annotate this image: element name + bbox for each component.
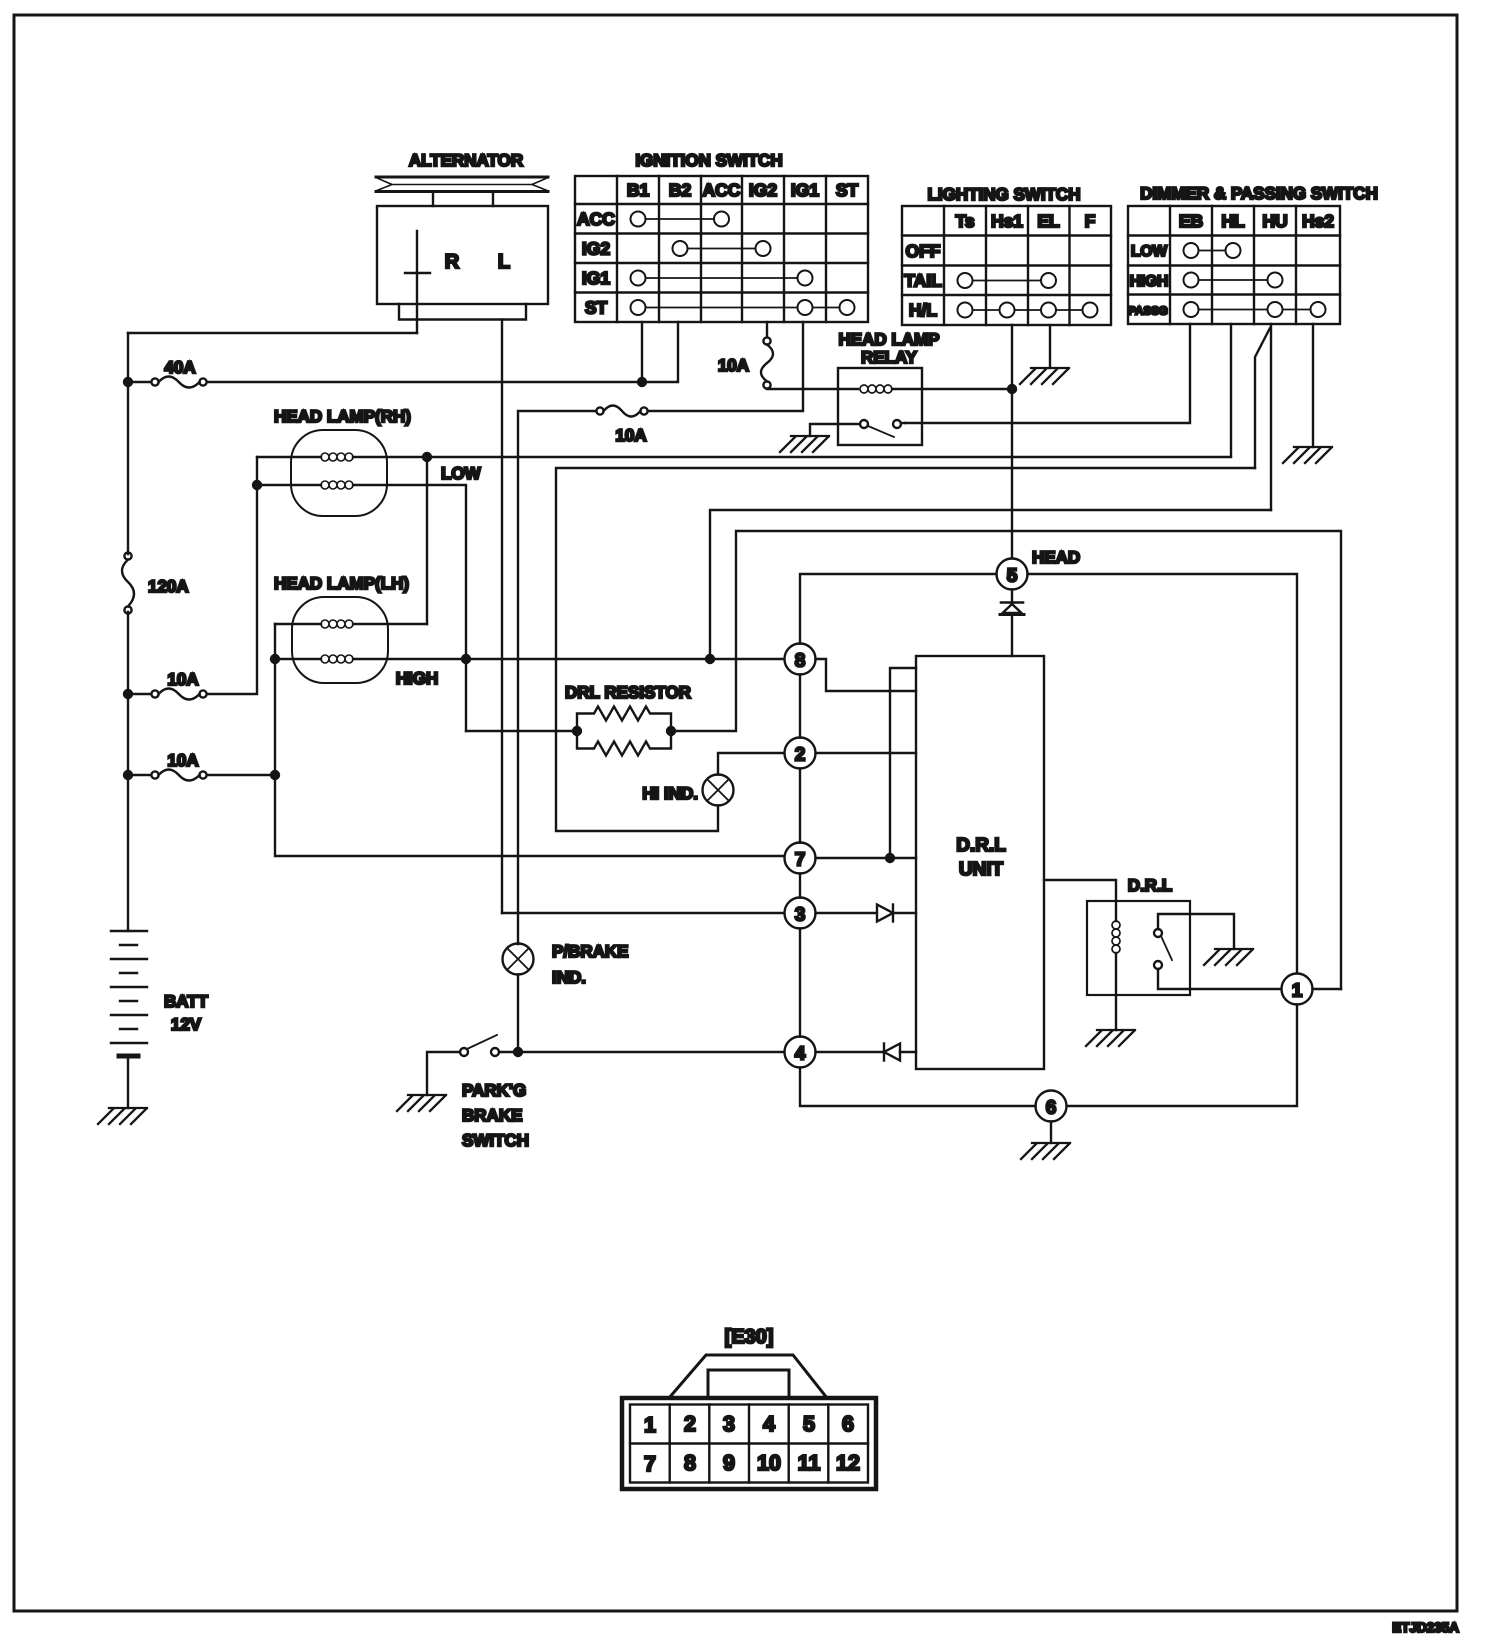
- node: LH lamp left coils junction: [271, 655, 279, 663]
- fuse 10A (head lamp LH): [151, 770, 206, 781]
- svg-text:1: 1: [1292, 981, 1303, 1002]
- wire: HIGH drop to resistor left: [466, 730, 577, 732]
- svg-text:P/BRAKE: P/BRAKE: [552, 942, 629, 961]
- svg-text:120A: 120A: [148, 577, 189, 596]
- svg-text:PARK'G: PARK'G: [462, 1081, 526, 1100]
- alternator shaft stubs: [433, 193, 493, 206]
- svg-text:9: 9: [723, 1451, 735, 1475]
- svg-text:12: 12: [836, 1451, 860, 1475]
- svg-text:[E30]: [E30]: [725, 1326, 774, 1348]
- wire: terminal 5 left to terminal 8 top: [800, 574, 997, 644]
- svg-text:IG2: IG2: [749, 180, 777, 200]
- fuse 10A (ignition IG2, vertical): [761, 337, 773, 388]
- wire: resistor right to outer loop riser: [671, 531, 1341, 989]
- wire: 10A fuse LH to lamp vertical: [128, 774, 275, 776]
- wire: 40A feed to ignition switch B1/B2: [128, 322, 678, 382]
- node: bus to 40A fuse: [124, 378, 132, 386]
- svg-text:DIMMER & PASSING SWITCH: DIMMER & PASSING SWITCH: [1140, 184, 1378, 203]
- alternator pulley: [376, 177, 548, 192]
- connector E30 hood: [669, 1355, 827, 1398]
- ground: DRL relay switch: [1204, 949, 1253, 965]
- wire: fuse to head lamp relay coil: [767, 387, 858, 390]
- node: resistor left: [573, 727, 581, 735]
- svg-text:LOW: LOW: [1131, 243, 1168, 260]
- head lamp RH bulb: [291, 430, 387, 516]
- fuse 10A (headlamp high feed): [596, 406, 647, 417]
- svg-text:HI IND.: HI IND.: [642, 784, 698, 803]
- wire: terminal 6 to ground: [1050, 1122, 1052, 1144]
- wire: RH high coil to HIGH line: [257, 485, 466, 731]
- svg-text:PASSG: PASSG: [1128, 306, 1167, 318]
- alternator pedestal: [399, 304, 526, 320]
- wire: EL pin to ground: [1049, 325, 1051, 368]
- diode D2 (DRL unit to terminal 4): [884, 1044, 916, 1061]
- wire: alternator R to bus: [416, 320, 418, 334]
- fuse 120A (main, vertical in bus): [122, 552, 134, 613]
- svg-text:B1: B1: [627, 180, 650, 200]
- node: LOW junction: [423, 453, 431, 461]
- terminal 7: [785, 843, 816, 874]
- svg-text:D.R.L: D.R.L: [1128, 876, 1172, 895]
- wire: relay switch output to EB (drawn with EB stub): [901, 422, 905, 424]
- wire: 10A fuse to head lamp RH left side: [128, 457, 257, 694]
- node: HIGH to outer loop: [706, 655, 714, 663]
- wire: terminal 5 right to terminal 1 riser: [1028, 574, 1298, 974]
- wire: alternator L down to terminal 3 line: [501, 320, 503, 914]
- svg-text:ST: ST: [585, 298, 608, 318]
- svg-text:4: 4: [763, 1412, 775, 1436]
- svg-text:IG1: IG1: [791, 180, 819, 200]
- ignition contacts row ST: [631, 300, 855, 315]
- svg-text:UNIT: UNIT: [959, 859, 1004, 880]
- wire: relay coil to Hs1 node: [892, 388, 1012, 390]
- wire: HI IND bottom loop to dimmer HU branch: [556, 468, 1255, 831]
- node: bus to 10A fuse (RH): [124, 690, 132, 698]
- wire: top feed from battery bus to alternator R: [128, 332, 417, 334]
- svg-text:IND.: IND.: [552, 968, 586, 987]
- fuse 10A (head lamp RH): [151, 689, 206, 700]
- dimmer contacts row PASSG: [1184, 302, 1326, 317]
- wire: terminal chain 8-2-7-3-4: [799, 675, 801, 1037]
- node: LH lamp feed junction: [271, 771, 279, 779]
- svg-text:BATT: BATT: [164, 992, 209, 1011]
- svg-text:F: F: [1085, 211, 1096, 231]
- lamp HI IND.: [703, 775, 734, 806]
- wire: DRL unit stub to terminal 7 node: [890, 668, 916, 858]
- connector E30 latch tab: [708, 1370, 789, 1398]
- svg-text:8: 8: [795, 651, 806, 672]
- terminal 2: [785, 738, 816, 769]
- wire: IG2 pin stub: [766, 322, 768, 337]
- svg-text:11: 11: [798, 1451, 821, 1475]
- node: RH lamp left coils junction: [253, 481, 261, 489]
- svg-text:4: 4: [795, 1044, 806, 1065]
- wire: LH low coil to LOW vertical: [275, 623, 427, 625]
- relay switch contacts (D.R.L relay): [1154, 929, 1172, 969]
- terminal 8: [785, 644, 816, 675]
- wire: DRL relay switch top to ground: [1158, 914, 1234, 949]
- zener diode (terminal 5 to DRL unit): [1000, 590, 1024, 657]
- svg-text:HEAD LAMP(LH): HEAD LAMP(LH): [274, 574, 409, 593]
- svg-text:HIGH: HIGH: [396, 669, 439, 688]
- svg-text:B2: B2: [669, 180, 692, 200]
- svg-text:BRAKE: BRAKE: [462, 1106, 522, 1125]
- svg-text:HEAD: HEAD: [1032, 548, 1080, 567]
- node: relay coil / Hs1 / HEAD junction: [1008, 385, 1016, 393]
- svg-text:RELAY: RELAY: [861, 348, 918, 367]
- ground: dimmer switch Hs2: [1283, 447, 1332, 463]
- wire: HU loop down to HIGH node: [710, 510, 1271, 659]
- svg-text:6: 6: [842, 1412, 854, 1436]
- wire: terminal 1 down to terminal 6: [1067, 1005, 1298, 1107]
- connector E30 pin numbers: [644, 1412, 860, 1476]
- wire: park brake switch to ground: [427, 1052, 460, 1095]
- relay coil (D.R.L relay, vertical): [1112, 921, 1120, 953]
- connector E30 body: [622, 1398, 876, 1489]
- battery BATT 12V: [111, 931, 147, 1108]
- wire: Hs1 pin down to relay coil node and HEAD terminal 5: [1011, 325, 1013, 558]
- svg-text:Hs1: Hs1: [991, 211, 1023, 231]
- ignition switch table: [575, 176, 868, 322]
- svg-text:SWITCH: SWITCH: [462, 1131, 529, 1150]
- wire: EB pin down to head lamp relay contact: [905, 324, 1190, 423]
- lighting contacts row TAIL: [958, 273, 1057, 288]
- wire: HU pin down to outer loop (HIGH select): [1270, 324, 1272, 510]
- wire: HL pin down to LOW line: [1230, 324, 1232, 456]
- svg-text:5: 5: [1007, 566, 1018, 587]
- svg-text:ST: ST: [836, 180, 859, 200]
- svg-text:IG2: IG2: [582, 239, 610, 259]
- ground: head lamp relay: [780, 436, 829, 452]
- wire: LOW junction down to LH low coil: [426, 457, 428, 624]
- svg-text:1: 1: [644, 1413, 656, 1437]
- connector E30 pin grid: [630, 1405, 868, 1483]
- wire: terminal 7 to DRL unit: [816, 857, 917, 859]
- svg-text:Ts: Ts: [955, 211, 974, 231]
- wire: park brake switch to terminal 4 line: [499, 1051, 518, 1053]
- terminal 6: [1036, 1091, 1067, 1122]
- svg-text:ETJD235A: ETJD235A: [1392, 1620, 1459, 1635]
- wire: terminal 3 line: [502, 912, 877, 914]
- svg-text:HEAD LAMP(RH): HEAD LAMP(RH): [274, 407, 411, 426]
- wire: battery bus (left vertical): [127, 333, 129, 931]
- fuse 40A: [151, 377, 206, 388]
- head lamp LH bulb: [292, 597, 388, 683]
- svg-text:10A: 10A: [167, 751, 198, 770]
- wire: IG1 pin to 10A fuse line: [648, 322, 803, 411]
- relay coil (head lamp relay): [860, 385, 892, 393]
- node: stub joins terminal 7 wire: [886, 854, 894, 862]
- terminal 5 HEAD: [997, 559, 1028, 590]
- svg-text:ALTERNATOR: ALTERNATOR: [409, 151, 523, 170]
- resistor DRL (two parallel elements): [577, 707, 671, 756]
- node: bus to 10A fuse (LH): [124, 771, 132, 779]
- svg-text:6: 6: [1046, 1098, 1057, 1119]
- svg-text:L: L: [498, 251, 510, 273]
- svg-text:3: 3: [723, 1412, 735, 1436]
- relay: D.R.L relay box: [1087, 901, 1190, 995]
- relay: head lamp relay box: [838, 368, 922, 445]
- terminal 1: [1282, 974, 1313, 1005]
- node: HIGH to resistor drop: [462, 655, 470, 663]
- wire: terminal 2 to DRL unit: [816, 752, 917, 754]
- svg-text:12V: 12V: [171, 1015, 202, 1034]
- node: resistor right: [667, 727, 675, 735]
- svg-text:8: 8: [684, 1451, 696, 1475]
- node: park brake switch junction: [514, 1048, 522, 1056]
- svg-text:10A: 10A: [167, 670, 198, 689]
- svg-text:2: 2: [795, 745, 806, 766]
- svg-text:R: R: [445, 251, 460, 273]
- svg-text:HL: HL: [1221, 211, 1245, 231]
- node: B1 junction: [638, 378, 646, 386]
- svg-text:DRL RESISTOR: DRL RESISTOR: [565, 683, 691, 702]
- svg-text:2: 2: [684, 1412, 696, 1436]
- svg-text:D.R.L: D.R.L: [956, 835, 1006, 856]
- svg-text:EL: EL: [1037, 211, 1060, 231]
- svg-text:40A: 40A: [164, 358, 195, 377]
- lighting contacts row H/L: [958, 303, 1098, 318]
- wire: terminal 4 line: [518, 1051, 884, 1053]
- relay switch contacts (head lamp relay): [860, 420, 901, 437]
- wire: DRL relay coil to ground: [1115, 953, 1117, 1030]
- dimmer and passing switch table: [1128, 206, 1340, 324]
- ignition contacts row IG2: [673, 241, 771, 256]
- svg-text:OFF: OFF: [906, 241, 941, 261]
- alternator: [376, 177, 548, 320]
- ground: park brake switch: [397, 1095, 446, 1111]
- wire: HU branch to HI IND line: [1255, 328, 1270, 468]
- ground: battery: [98, 1108, 147, 1124]
- wire: DRL relay switch bottom to terminal 1: [1158, 969, 1282, 989]
- terminal 4: [785, 1037, 816, 1068]
- wire: DRL unit to DRL relay coil: [1044, 880, 1116, 921]
- DRL unit box: [916, 656, 1044, 1069]
- svg-text:IGNITION SWITCH: IGNITION SWITCH: [635, 151, 782, 170]
- svg-text:ACC: ACC: [703, 180, 741, 200]
- ground: DRL relay coil: [1086, 1030, 1135, 1046]
- wire: terminal 6 to terminal 4 drop: [800, 1068, 1036, 1107]
- ignition contacts row ACC: [631, 212, 730, 227]
- wire: HI IND top to terminal 2: [718, 753, 784, 775]
- wire: relay switch to ground: [810, 424, 860, 436]
- switch: parking brake: [460, 1035, 499, 1056]
- wire: HIGH line (LH high coil to terminal 8): [275, 658, 784, 660]
- wire: LH lamp left vertical to fuse and terminal 7 line: [275, 624, 784, 856]
- wire: LOW line (RH low coil to dimmer HL): [257, 456, 1231, 458]
- svg-text:7: 7: [644, 1452, 656, 1476]
- svg-text:HIGH: HIGH: [1130, 273, 1169, 290]
- svg-text:3: 3: [795, 905, 806, 926]
- svg-text:HEAD LAMP: HEAD LAMP: [838, 330, 939, 349]
- wire: terminal 8 to DRL unit: [816, 659, 917, 691]
- svg-text:LIGHTING SWITCH: LIGHTING SWITCH: [928, 185, 1081, 204]
- lighting switch table: [902, 206, 1111, 325]
- alternator internal regulator symbol: [405, 231, 430, 320]
- svg-text:EB: EB: [1179, 211, 1203, 231]
- svg-text:10: 10: [757, 1451, 781, 1475]
- ground: lighting switch EL: [1020, 368, 1069, 384]
- dimmer contacts row LOW: [1184, 243, 1241, 258]
- wire: ignition B1 pin stub: [641, 322, 643, 382]
- svg-text:TAIL: TAIL: [904, 271, 942, 291]
- ignition contacts row IG1: [631, 271, 813, 286]
- wire: terminal 1 right to outer loop: [1313, 988, 1342, 990]
- svg-text:10A: 10A: [718, 356, 749, 375]
- svg-text:10A: 10A: [615, 426, 646, 445]
- svg-text:HU: HU: [1262, 211, 1287, 231]
- svg-text:7: 7: [795, 850, 806, 871]
- svg-text:H/L: H/L: [909, 300, 938, 320]
- svg-text:Hs2: Hs2: [1302, 211, 1334, 231]
- wire: 10A fuse down to P/BRAKE lamp line: [518, 411, 596, 944]
- svg-text:IG1: IG1: [582, 268, 610, 288]
- terminal 3: [785, 898, 816, 929]
- svg-text:ACC: ACC: [577, 209, 615, 229]
- diode D1 (terminal 3 to DRL unit): [877, 905, 916, 922]
- lamp P/BRAKE IND.: [503, 944, 534, 975]
- svg-text:LOW: LOW: [441, 464, 482, 483]
- svg-text:5: 5: [803, 1412, 815, 1436]
- wire: Hs2 pin to ground: [1312, 324, 1314, 447]
- ground: terminal 6: [1021, 1143, 1070, 1159]
- dimmer contacts row HIGH: [1184, 273, 1283, 288]
- alternator body: [377, 206, 548, 304]
- wire: P/BRAKE lamp to park brake switch node: [517, 975, 519, 1053]
